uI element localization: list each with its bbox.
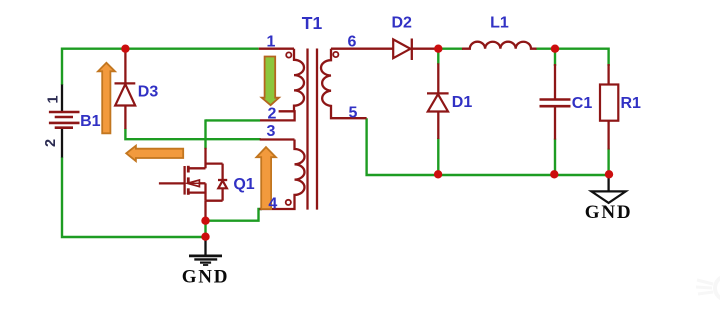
svg-text:T1: T1 bbox=[302, 13, 323, 33]
svg-text:R1: R1 bbox=[620, 95, 641, 112]
svg-text:2: 2 bbox=[268, 105, 277, 122]
svg-text:D2: D2 bbox=[391, 15, 412, 32]
svg-text:Q1: Q1 bbox=[233, 176, 254, 193]
svg-text:B1: B1 bbox=[80, 113, 101, 130]
svg-text:1: 1 bbox=[267, 34, 276, 51]
svg-text:4: 4 bbox=[268, 195, 277, 212]
svg-text:D3: D3 bbox=[138, 84, 159, 101]
svg-text:5: 5 bbox=[349, 104, 358, 121]
svg-text:L1: L1 bbox=[490, 15, 509, 32]
svg-text:C1: C1 bbox=[572, 95, 593, 112]
svg-text:3: 3 bbox=[267, 123, 276, 140]
svg-text:1: 1 bbox=[46, 95, 62, 103]
svg-text:D1: D1 bbox=[452, 94, 473, 111]
svg-text:GND: GND bbox=[182, 266, 230, 287]
svg-text:GND: GND bbox=[585, 202, 633, 223]
svg-text:2: 2 bbox=[43, 139, 59, 147]
svg-text:6: 6 bbox=[348, 34, 357, 51]
